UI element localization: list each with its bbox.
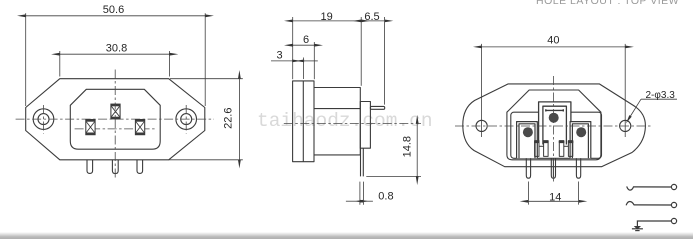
svg-text:2-φ3.3: 2-φ3.3 (646, 90, 676, 101)
dim 0.8 (346, 200, 360, 202)
dim 19 (293, 20, 362, 22)
front horizontal centerline (16, 118, 214, 120)
front earth pin centerline segment (114, 105, 116, 119)
svg-text:0.8: 0.8 (378, 191, 393, 203)
contact line E with ground (637, 221, 671, 226)
rear lug prong 1 (535, 141, 573, 157)
dimensions (26, 13, 677, 205)
rear center rivet (549, 113, 559, 123)
dimension texts (103, 4, 675, 204)
svg-text:40: 40 (547, 35, 559, 47)
front center leg (112, 160, 118, 174)
front left hole vertical centerline (43, 105, 45, 134)
side tab pin (370, 106, 384, 109)
rear vertical centerline (553, 76, 555, 182)
front recess outline (70, 89, 160, 149)
dim 14 (528, 200, 578, 202)
rear right mounting hole (620, 120, 631, 131)
svg-text:22.6: 22.6 (223, 107, 235, 128)
dim 50.6 (26, 15, 206, 17)
front right mounting hole (176, 109, 197, 130)
side terminal block (360, 102, 370, 149)
side body inner line (314, 108, 360, 110)
svg-text:14.8: 14.8 (401, 136, 413, 157)
front side-pin centerline (75, 128, 155, 130)
rear right terminal (570, 122, 591, 159)
svg-text:HOLE LAYOUT : TOP VIEW: HOLE LAYOUT : TOP VIEW (536, 0, 679, 7)
dim 22.6 (238, 79, 240, 160)
svg-text:3: 3 (277, 50, 283, 62)
front pin slots (drawn over centerlines) (86, 104, 145, 135)
front left pin slot (86, 120, 95, 135)
dim 30.8 (60, 53, 170, 55)
svg-text:30.8: 30.8 (106, 43, 127, 55)
centerlines (16, 70, 652, 182)
rear left terminal (517, 122, 538, 159)
side down pin (361, 148, 364, 176)
rear left rivet (523, 127, 533, 137)
front left leg (87, 160, 93, 174)
side flange (293, 81, 314, 162)
rear housing (511, 112, 602, 158)
rear horizontal centerline (455, 125, 652, 127)
rear center terminal tick line (546, 109, 564, 111)
svg-text:6: 6 (303, 34, 309, 46)
rear right leg (576, 158, 580, 178)
front right pin slot (135, 120, 144, 135)
rear flange outline (463, 84, 646, 167)
front left mounting hole (33, 109, 54, 130)
side view centerline (284, 123, 421, 125)
front right leg (137, 160, 143, 174)
dim 6 (293, 44, 315, 46)
ground symbol (634, 226, 641, 230)
bottom gray bar (0, 232, 693, 240)
svg-text:taihaodz.com.cn: taihaodz.com.cn (257, 110, 433, 132)
rear center terminal (539, 102, 571, 145)
dim 40 (482, 46, 626, 48)
side body (314, 88, 360, 155)
side flange mid line (302, 81, 304, 162)
dim 6.5 (361, 20, 384, 22)
svg-text:6.5: 6.5 (364, 11, 379, 23)
rear left leg (526, 158, 530, 178)
front vertical centerline (114, 70, 116, 179)
contact line L (627, 186, 672, 190)
leader 2-phi3.3 (641, 98, 677, 100)
front earth pin slot (111, 104, 120, 119)
rear center leg (551, 158, 555, 178)
svg-text:50.6: 50.6 (103, 4, 124, 16)
svg-text:19: 19 (320, 11, 332, 23)
schematic symbol (626, 184, 677, 230)
dim 3 (271, 60, 292, 62)
dim 14.8 (416, 124, 418, 177)
rear right rivet (576, 127, 586, 137)
svg-text:14: 14 (549, 192, 561, 204)
rear left mounting hole (476, 120, 487, 131)
front right hole vertical centerline (185, 105, 187, 134)
contact line N (626, 202, 671, 206)
rear inner octagon (507, 90, 601, 160)
front flange outline (26, 79, 205, 160)
